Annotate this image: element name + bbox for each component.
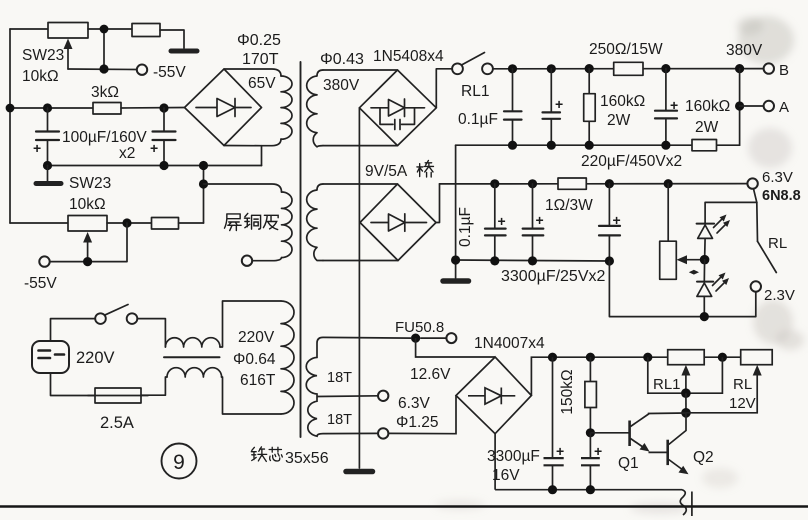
- wire top rail 380V: [493, 68, 764, 70]
- node shield tap: [199, 179, 208, 188]
- svg-text:100µF/160V: 100µF/160V: [62, 129, 147, 146]
- node 25V rail e: [605, 256, 614, 265]
- cut-off coil curl bottom right: [680, 490, 686, 515]
- wire pot to node: [88, 28, 132, 30]
- wire left vertical rail: [9, 29, 11, 223]
- resistor 250ohm 15W: [614, 62, 643, 75]
- wire resistor to rail: [179, 222, 204, 224]
- wire 380V winding top to bridge2: [323, 69, 398, 71]
- potentiometer SW23 10k upper body: [48, 23, 88, 39]
- ground 0.1uF-2: [443, 278, 469, 284]
- node pot2 out: [122, 218, 131, 227]
- wire 9V winding bottom to bridge3: [323, 260, 398, 262]
- ground main: [346, 469, 373, 475]
- svg-text:9: 9: [173, 451, 185, 474]
- wire 2.3V loop: [609, 261, 755, 317]
- line filter choke bottom coil: [167, 368, 222, 377]
- winding 65V 170T: [281, 76, 292, 139]
- winding 9V 5A: [307, 184, 323, 261]
- wire primary block bottom: [222, 377, 282, 414]
- node mid rail 160k1: [585, 141, 594, 150]
- wire bottom output rail: [495, 489, 682, 491]
- scan noise patches: [435, 16, 804, 514]
- CJK label ping (shield): [224, 214, 241, 231]
- wire top row left: [10, 28, 48, 30]
- svg-text:12.6V: 12.6V: [410, 366, 451, 383]
- RL12V plunger arrow: [753, 365, 762, 376]
- terminal 6.3V: [747, 178, 757, 188]
- terminal phi1.25: [378, 428, 388, 438]
- svg-text:RL: RL: [733, 376, 752, 393]
- svg-text:12V: 12V: [729, 395, 756, 412]
- wire shield to terminal: [253, 258, 282, 261]
- node lower rail b: [159, 161, 168, 170]
- svg-text:10kΩ: 10kΩ: [22, 68, 59, 85]
- svg-text:6.3V: 6.3V: [398, 395, 431, 412]
- winding 220V primary 616T: [281, 301, 294, 414]
- svg-text:A: A: [779, 99, 789, 116]
- terminal B: [764, 63, 774, 73]
- svg-text:170T: 170T: [242, 51, 279, 68]
- svg-text:+: +: [536, 212, 544, 228]
- wire tap to bridge4 left: [388, 396, 456, 434]
- node RL1 loop left: [643, 353, 652, 362]
- bridge rectifier 9V/5A diamond: [360, 184, 436, 261]
- svg-text:1Ω/3W: 1Ω/3W: [545, 197, 593, 214]
- choke core: [164, 356, 220, 358]
- resistor right of pot2: [152, 218, 179, 230]
- wire 6.3V terminal to LED branch: [754, 189, 757, 203]
- node 220uF-B top: [661, 64, 670, 73]
- node fuse tap: [411, 334, 420, 343]
- wire fuse to plug bottom: [51, 373, 96, 396]
- capacitor 100uF #2: [163, 108, 165, 131]
- wire switch to choke: [137, 319, 165, 347]
- svg-text:10kΩ: 10kΩ: [69, 196, 106, 213]
- wire LED branch top: [705, 202, 757, 223]
- mains plug 220V: [32, 341, 69, 373]
- svg-text:3300µF/25Vx2: 3300µF/25Vx2: [501, 268, 606, 285]
- svg-text:160kΩ: 160kΩ: [600, 93, 645, 110]
- wire collector row to RL12V: [686, 371, 757, 413]
- RL1 plunger arrow: [685, 371, 687, 393]
- wire plunger node down: [685, 393, 687, 413]
- bridge rectifier 1N5408x4 diamond: [359, 70, 436, 146]
- ground: [171, 49, 197, 54]
- winding 380V secondary: [307, 70, 323, 147]
- bridge rectifier 65V diamond: [185, 69, 262, 146]
- bridge3 diode: [371, 222, 427, 224]
- wire rail RL1 to RL12V: [704, 356, 741, 358]
- node bottom rail g: [586, 485, 595, 494]
- capacitor 3300uF C: [494, 184, 496, 228]
- transistor Q2: [666, 440, 669, 465]
- wire phi1.25 tap: [323, 432, 378, 434]
- wire shield row: [204, 184, 282, 192]
- svg-text:Φ0.64: Φ0.64: [233, 351, 276, 368]
- svg-text:+: +: [613, 212, 621, 228]
- wire bridge1 bottom to winding: [224, 139, 281, 146]
- node 3300uF-F top: [548, 353, 557, 362]
- transformer core: [300, 62, 302, 437]
- LED 2: [703, 260, 705, 282]
- wire bridge4 right up to relay rail: [531, 357, 667, 395]
- potentiometer lower wiper: [87, 239, 89, 262]
- node B-A riser top: [735, 64, 744, 73]
- svg-text:1N5408x4: 1N5408x4: [373, 48, 444, 65]
- node 150k top: [586, 353, 595, 362]
- resistor 150k vertical: [589, 357, 591, 381]
- svg-text:380V: 380V: [726, 42, 763, 59]
- wire bridge4 bottom down: [494, 434, 496, 490]
- bridge4 diode: [468, 395, 515, 397]
- LED1 arrows: [714, 219, 727, 234]
- node cap2 top: [159, 103, 168, 112]
- node LED2 bottom: [700, 312, 709, 321]
- bottom border: [0, 505, 808, 508]
- wire Q1 emitter to Q2 base: [649, 451, 667, 453]
- wire plug top: [51, 319, 96, 341]
- wire 6.3V tap: [317, 395, 378, 398]
- resistor 160k 2W #1 vertical: [588, 69, 590, 94]
- relay contact RL1: [452, 63, 463, 74]
- wire bridge2 right corner up: [436, 69, 452, 108]
- node 25V rail gnd: [451, 255, 460, 264]
- wire riser winding-bottom to lower rail: [261, 146, 263, 166]
- capacitor 220uF B: [665, 69, 667, 111]
- svg-text:x2: x2: [119, 145, 135, 162]
- node 25V rail d: [528, 256, 537, 265]
- svg-text:0.1µF: 0.1µF: [458, 111, 498, 128]
- svg-text:RL1: RL1: [653, 376, 681, 393]
- terminal 6.3V filament: [378, 391, 388, 401]
- svg-text:1N4007x4: 1N4007x4: [474, 335, 545, 352]
- capacitor second 16V: [589, 433, 591, 458]
- svg-text:Φ1.25: Φ1.25: [396, 414, 439, 431]
- shield winding copper foil: [282, 192, 293, 258]
- terminal shield: [242, 256, 252, 266]
- transistor Q1: [628, 421, 631, 447]
- node junction top: [100, 25, 109, 34]
- node 3300uF-E top: [605, 179, 614, 188]
- relay coil RL1: [668, 350, 705, 365]
- winding 18T #1: [306, 337, 323, 397]
- svg-text:Q1: Q1: [618, 455, 639, 472]
- bridge rectifier 1N4007x4 diamond: [456, 357, 531, 434]
- wire resistor to ground: [160, 30, 184, 48]
- bridge2 inner loop with capacitor: [380, 108, 415, 125]
- CJK label qiao (bridge): [417, 160, 434, 177]
- svg-text:18T: 18T: [327, 412, 352, 428]
- node lower rail c: [199, 161, 208, 170]
- wire wiper row: [68, 68, 137, 71]
- node 160k-1 top: [585, 64, 594, 73]
- node mid rail 220uF-A: [547, 141, 556, 150]
- wire choke top to primary block: [220, 301, 281, 347]
- svg-text:3300µF: 3300µF: [487, 448, 540, 465]
- svg-text:2W: 2W: [607, 112, 631, 129]
- resistor 3k: [93, 103, 121, 115]
- capacitor 0.1uF top-mid: [512, 69, 514, 111]
- svg-text:220µF/450Vx2: 220µF/450Vx2: [581, 153, 682, 170]
- svg-text:150kΩ: 150kΩ: [559, 369, 576, 414]
- switch mains: [95, 313, 106, 324]
- wire 3k to bridge: [121, 107, 185, 110]
- fuse 2.5A: [95, 388, 141, 403]
- node wiper2: [83, 257, 92, 266]
- wire 12.6V tap: [323, 336, 411, 339]
- wire mid rail 145: [456, 144, 740, 146]
- svg-text:Φ0.43: Φ0.43: [320, 51, 364, 68]
- svg-text:250Ω/15W: 250Ω/15W: [589, 41, 663, 58]
- potentiometer right vertical: [667, 184, 669, 242]
- svg-text:16V: 16V: [492, 467, 520, 484]
- wire wiper2 row: [50, 223, 127, 262]
- node 3300uF-C top: [490, 179, 499, 188]
- svg-text:2W: 2W: [695, 119, 719, 136]
- svg-text:+: +: [556, 443, 564, 459]
- node 220uF-A top: [547, 64, 556, 73]
- RL1 coil loop: [648, 357, 723, 393]
- svg-text:+: +: [594, 443, 602, 459]
- wire 0.1uF-2 vertical: [455, 145, 457, 260]
- svg-text:35x56: 35x56: [285, 450, 329, 467]
- capacitor 220uF A: [550, 69, 552, 112]
- node cap1 top: [43, 103, 52, 112]
- svg-text:+: +: [33, 140, 41, 156]
- node left rail: [6, 104, 15, 113]
- wire 380V winding bottom to bridge2: [323, 145, 398, 147]
- ground below cap1: [47, 166, 49, 182]
- wire 9V winding top to bridge3: [323, 183, 398, 185]
- svg-text:220V: 220V: [76, 349, 115, 367]
- node mid rail 220uF-B: [661, 141, 670, 150]
- svg-text:-55V: -55V: [24, 275, 57, 292]
- svg-text:Q2: Q2: [693, 449, 714, 466]
- wire to terminal A: [740, 105, 764, 107]
- wire to ground4: [455, 260, 457, 278]
- bridge1 diode: [196, 107, 251, 109]
- wire B-A riser: [739, 69, 741, 146]
- node pot3 top: [664, 179, 673, 188]
- relay coil RL 12V: [741, 350, 773, 365]
- resistor 1ohm 3W: [558, 178, 586, 189]
- pot3 wiper arrow: [683, 259, 705, 261]
- wire node to -55V row: [103, 29, 105, 69]
- resistor 160k 2W #2 horizontal: [692, 140, 717, 151]
- svg-text:-55V: -55V: [153, 64, 186, 81]
- potentiometer SW23 10k lower body: [10, 222, 68, 224]
- svg-text:RL: RL: [768, 235, 787, 252]
- svg-text:FU50.8: FU50.8: [395, 319, 444, 336]
- wire bridge1 top to winding: [224, 69, 281, 76]
- wire pot2 out: [107, 222, 152, 224]
- svg-text:0.1µF: 0.1µF: [457, 207, 474, 247]
- svg-text:65V: 65V: [248, 75, 276, 92]
- svg-text:+: +: [555, 96, 563, 112]
- node LED mid: [700, 255, 710, 265]
- terminal -55V upper: [137, 65, 147, 75]
- wire 25V bottom rail: [456, 260, 610, 261]
- wire to fuse terminal: [420, 337, 446, 339]
- winding 18T #2: [308, 397, 323, 436]
- capacitor 100uF #1: [47, 108, 49, 131]
- wire bridge3 out riser: [436, 184, 440, 223]
- node bottom rail f: [548, 485, 557, 494]
- svg-text:3kΩ: 3kΩ: [91, 84, 119, 101]
- svg-text:SW23: SW23: [69, 175, 111, 192]
- terminal -55V lower: [39, 256, 49, 266]
- svg-text:6.3V: 6.3V: [762, 169, 793, 186]
- node lower rail a: [43, 161, 52, 170]
- wire Q1 base: [590, 432, 628, 434]
- LED 1: [697, 223, 715, 225]
- terminal A: [764, 101, 774, 111]
- svg-text:RL1: RL1: [461, 83, 489, 100]
- svg-text:2.3V: 2.3V: [764, 287, 795, 304]
- capacitor 3300uF E: [608, 184, 610, 226]
- potentiometer SW23 upper wiper: [67, 45, 69, 69]
- LED2 arrows: [713, 277, 726, 292]
- svg-text:+: +: [498, 213, 506, 229]
- node terminal A tap: [735, 101, 744, 110]
- capacitor 3300uF 16V: [552, 357, 554, 458]
- CJK label pi (skin): [263, 215, 278, 229]
- wire 3k row: [10, 107, 93, 109]
- CJK label xin (core): [269, 447, 282, 461]
- svg-text:SW23: SW23: [22, 47, 64, 64]
- node RL1 plunger: [681, 388, 691, 398]
- adjustment mark glyph: [689, 270, 694, 275]
- node junction -55V: [99, 64, 108, 73]
- terminal FU50.8: [446, 333, 456, 343]
- bridge2 diode: [371, 107, 425, 109]
- svg-text:380V: 380V: [323, 77, 360, 94]
- svg-text:18T: 18T: [327, 370, 352, 386]
- node Q1 base tap: [586, 428, 595, 437]
- svg-text:2.5A: 2.5A: [100, 414, 134, 432]
- CJK label tong (copper): [244, 213, 260, 229]
- wire 6.3V rail: [440, 183, 748, 185]
- svg-text:9V/5A: 9V/5A: [365, 163, 408, 180]
- wire lower rail left: [48, 166, 262, 224]
- node mid rail 0.1uF: [508, 141, 517, 150]
- resistor unlabeled top: [132, 24, 160, 37]
- node Q collector: [681, 408, 691, 418]
- wire fuse node down to bridge4 top: [416, 338, 496, 357]
- CJK label tie (iron): [251, 447, 266, 462]
- svg-text:160kΩ: 160kΩ: [685, 98, 730, 115]
- relay contact RL right: [756, 202, 759, 241]
- ground rail vertical long: [358, 108, 360, 468]
- wire choke bottom to fuse: [141, 377, 167, 395]
- capacitor 3300uF D: [532, 184, 534, 228]
- node 0.1uF top: [508, 64, 517, 73]
- svg-text:220V: 220V: [238, 329, 275, 346]
- cut-off wire bottom right: [691, 492, 693, 517]
- svg-text:Φ0.25: Φ0.25: [237, 32, 281, 49]
- figure number 9: [162, 444, 197, 479]
- svg-text:+: +: [670, 97, 678, 113]
- svg-text:616T: 616T: [240, 372, 276, 389]
- terminal 2.3V: [751, 281, 761, 291]
- node 25V rail c: [490, 256, 499, 265]
- line filter choke top coil: [165, 338, 220, 347]
- node RL1 loop right: [718, 353, 727, 362]
- node 3300uF-D top: [528, 179, 537, 188]
- svg-text:+: +: [150, 140, 158, 156]
- svg-text:B: B: [779, 62, 789, 79]
- svg-text:6N8.8: 6N8.8: [762, 188, 801, 204]
